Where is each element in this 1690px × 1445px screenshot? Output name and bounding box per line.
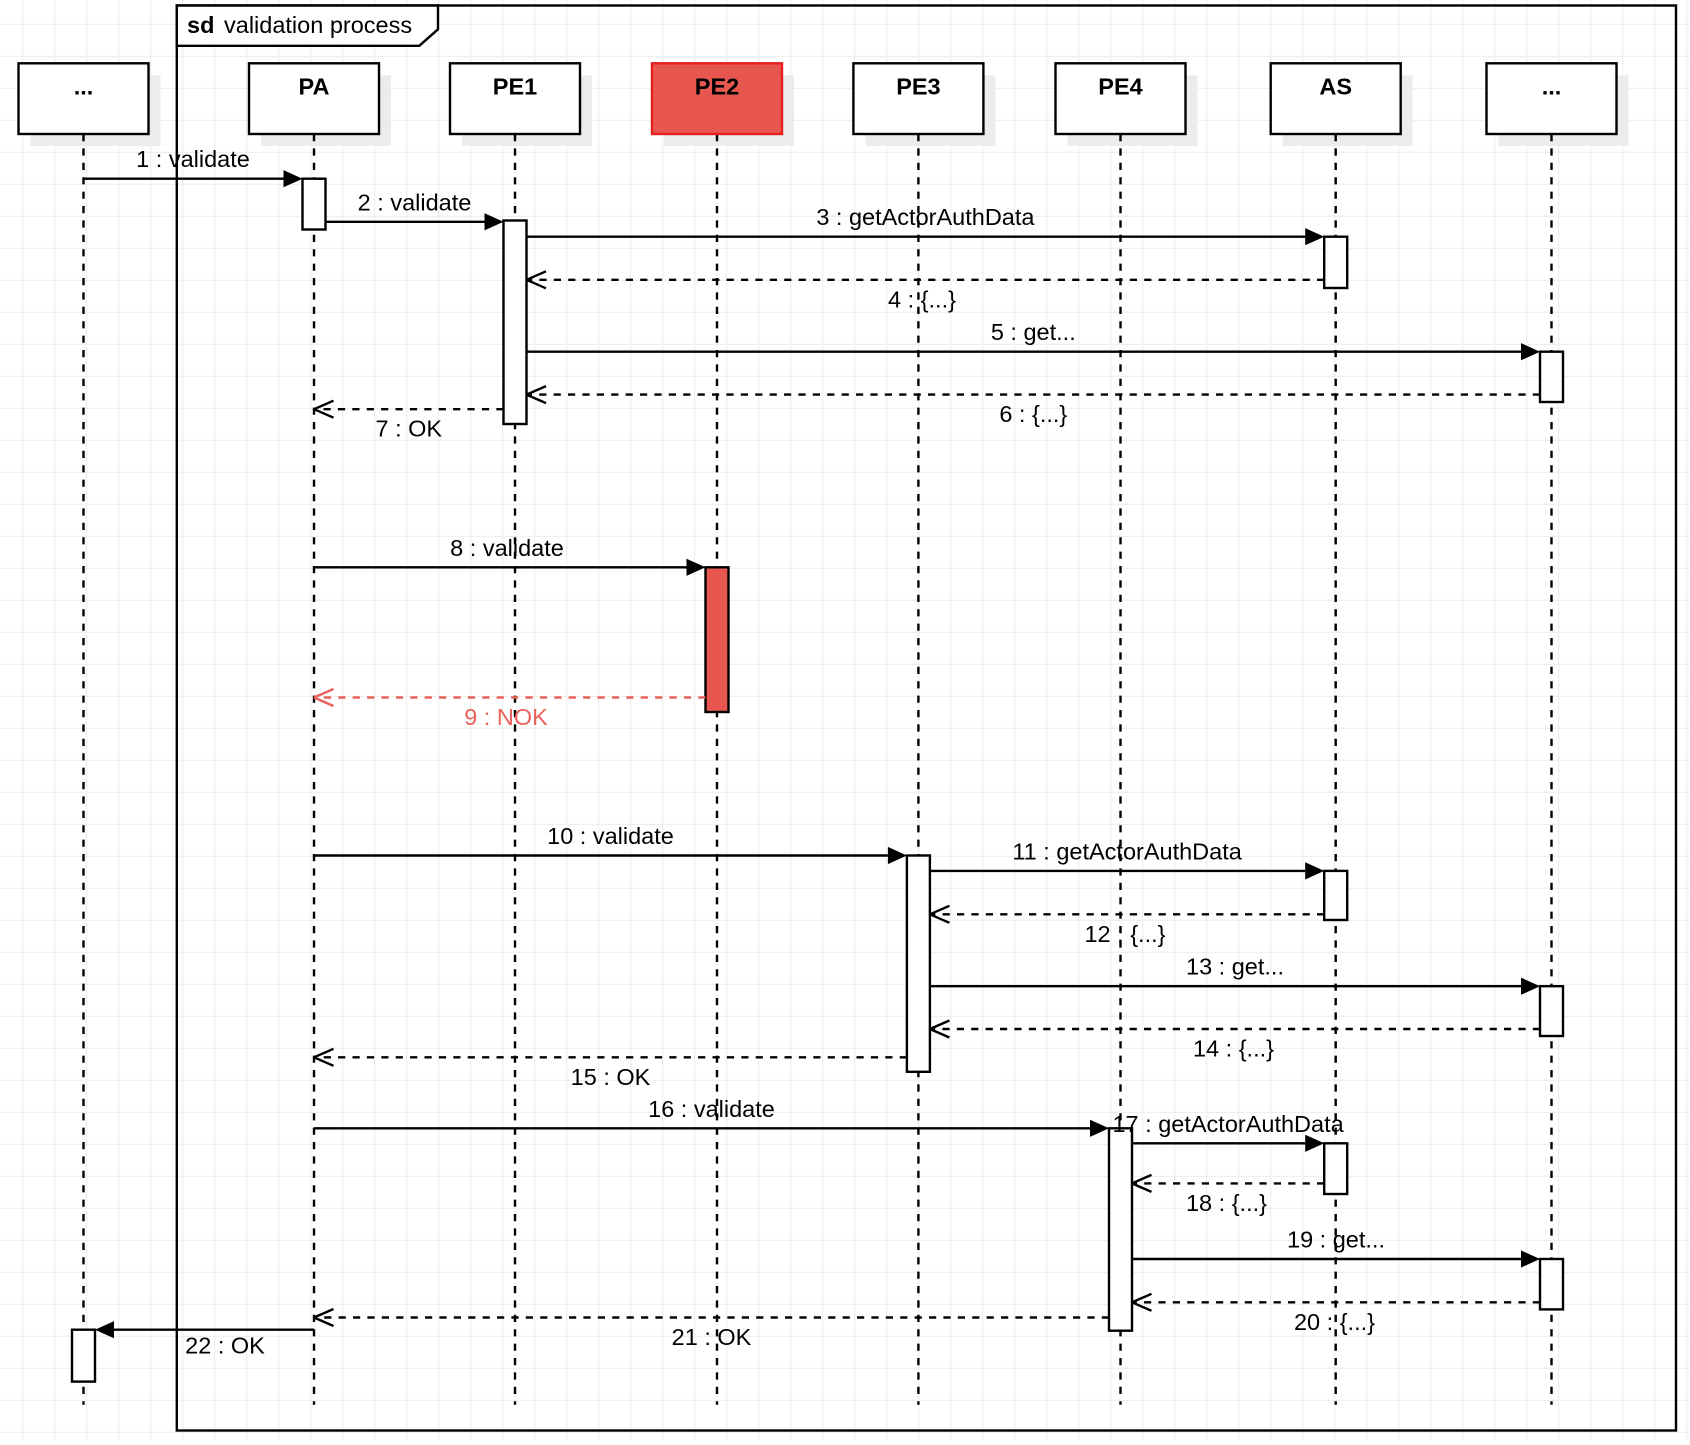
shadow of Left-dots <box>31 75 161 146</box>
svg-text:sd: sd <box>187 12 214 38</box>
svg-text:4 : {...}: 4 : {...} <box>888 286 956 312</box>
message 10 validate <box>314 823 907 864</box>
activation PE1 <box>504 221 527 425</box>
shadow of PE4 <box>1068 75 1198 146</box>
svg-text:1 : validate: 1 : validate <box>136 146 250 172</box>
activation PE3 <box>907 856 930 1072</box>
activation RightDots-2 <box>1540 986 1563 1036</box>
svg-text:22 : OK: 22 : OK <box>185 1333 265 1359</box>
svg-text:2 : validate: 2 : validate <box>358 189 472 215</box>
svg-text:3 : getActorAuthData: 3 : getActorAuthData <box>816 204 1035 230</box>
svg-text:11 : getActorAuthData: 11 : getActorAuthData <box>1012 838 1242 864</box>
message 1 validate <box>84 146 303 187</box>
message 20 return <box>1132 1294 1540 1335</box>
svg-text:14 : {...}: 14 : {...} <box>1193 1036 1274 1062</box>
message 14 return <box>930 1021 1540 1062</box>
node lifeline-head PE2 <box>652 63 782 134</box>
node lifeline-head Left-dots <box>19 63 149 134</box>
node lifeline-head Right-dots <box>1487 63 1617 134</box>
shadow of Right-dots <box>1499 75 1629 146</box>
svg-text:8 : validate: 8 : validate <box>450 535 564 561</box>
svg-text:19 : get...: 19 : get... <box>1287 1227 1385 1253</box>
message 15 OK return <box>314 1049 907 1090</box>
message 7 OK return <box>314 401 504 442</box>
node lifeline-head PE3 <box>853 63 983 134</box>
frame title pentagon: sd validation process <box>177 6 438 46</box>
message 5 get <box>527 319 1541 360</box>
svg-text:9 : NOK: 9 : NOK <box>464 704 548 730</box>
message 2 validate <box>326 189 504 230</box>
message 11 getActorAuthData <box>930 838 1324 879</box>
node lifeline-head AS <box>1271 63 1401 134</box>
message 13 get <box>930 954 1540 995</box>
activation RightDots-1 <box>1540 352 1563 402</box>
node lifeline-head PA <box>249 63 379 134</box>
svg-text:PE3: PE3 <box>896 74 940 100</box>
activation PA <box>303 179 326 230</box>
svg-text:17 : getActorAuthData: 17 : getActorAuthData <box>1112 1111 1344 1137</box>
node lifeline-head PE4 <box>1056 63 1186 134</box>
activation RightDots-3 <box>1540 1259 1563 1309</box>
activation AS-3 <box>1324 1143 1347 1194</box>
svg-text:20 : {...}: 20 : {...} <box>1294 1309 1375 1335</box>
shadow of PE3 <box>865 75 995 146</box>
lifeline of PE3 <box>917 134 919 1405</box>
lifeline of Right-dots <box>1550 134 1552 1405</box>
svg-text:16 : validate: 16 : validate <box>648 1096 775 1122</box>
message 3 getActorAuthData <box>527 204 1325 245</box>
message 4 return <box>527 271 1325 312</box>
shadow of PE1 <box>462 75 592 146</box>
svg-text:PA: PA <box>299 74 330 100</box>
message 18 return <box>1132 1175 1324 1216</box>
lifeline of PA <box>313 134 315 1405</box>
message 12 return <box>930 906 1324 947</box>
shadow of PA <box>261 75 391 146</box>
svg-text:15 : OK: 15 : OK <box>571 1064 651 1090</box>
lifeline of PE1 <box>514 134 516 1405</box>
svg-text:13 : get...: 13 : get... <box>1186 954 1284 980</box>
svg-text:6 : {...}: 6 : {...} <box>999 401 1067 427</box>
activation PE4 <box>1109 1128 1132 1330</box>
svg-text:...: ... <box>74 74 94 100</box>
svg-text:PE4: PE4 <box>1098 74 1142 100</box>
message 21 OK return <box>314 1309 1109 1350</box>
svg-text:10 : validate: 10 : validate <box>547 823 674 849</box>
activation AS-2 <box>1324 871 1347 920</box>
message 22 OK <box>95 1321 314 1358</box>
svg-text:validation process: validation process <box>224 12 412 38</box>
activation PE2 <box>706 567 729 712</box>
svg-text:PE1: PE1 <box>493 74 537 100</box>
svg-text:5 : get...: 5 : get... <box>991 319 1076 345</box>
shadow of AS <box>1283 75 1413 146</box>
lifeline of PE4 <box>1119 134 1121 1405</box>
svg-text:PE2: PE2 <box>695 74 739 100</box>
message 19 get <box>1132 1227 1540 1268</box>
shadow of PE2 <box>664 75 794 146</box>
activation LeftDots <box>72 1330 95 1382</box>
lifeline of PE2 <box>716 134 718 1405</box>
svg-text:AS: AS <box>1319 74 1352 100</box>
lifeline of AS <box>1334 134 1336 1405</box>
svg-text:21 : OK: 21 : OK <box>672 1324 752 1350</box>
message 9 NOK return <box>314 689 706 730</box>
node lifeline-head PE1 <box>450 63 580 134</box>
svg-text:12 : {...}: 12 : {...} <box>1084 921 1165 947</box>
message 17 getActorAuthData <box>1112 1111 1344 1152</box>
svg-text:...: ... <box>1542 74 1562 100</box>
message 8 validate <box>314 535 706 576</box>
activation AS-1 <box>1324 237 1347 288</box>
lifeline of Left-dots <box>82 134 84 1405</box>
svg-text:18 : {...}: 18 : {...} <box>1186 1190 1267 1216</box>
svg-text:7 : OK: 7 : OK <box>375 416 442 442</box>
message 16 validate <box>314 1096 1109 1137</box>
message 6 return <box>527 386 1541 427</box>
